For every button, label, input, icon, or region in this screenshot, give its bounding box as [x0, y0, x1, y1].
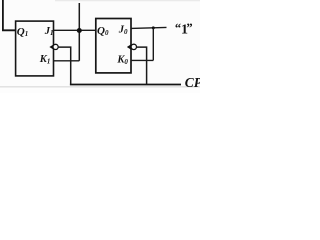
wire J0 input from "1": [131, 27, 167, 28]
paper background: [0, 0, 200, 88]
svg-text:CP: CP: [185, 75, 200, 90]
wire K1 input: [54, 60, 80, 62]
clock triangle FF0: [127, 44, 131, 50]
flip-flop FF1 box: [16, 21, 54, 76]
clock triangle FF1 (dynamic input): [49, 44, 53, 50]
wire Q1 output to top-left: [3, 0, 16, 30]
node junction dot on J1 line: [77, 28, 82, 33]
clock bubble FF0: [131, 44, 136, 49]
wire FF0 clock to CP rail: [136, 47, 146, 84]
node dot J0/K0 tie: [152, 26, 155, 29]
wire vertical from top through J1 node down to K1: [78, 3, 80, 61]
faint bottom divider line: [0, 86, 200, 88]
wire CP rail: [70, 84, 181, 86]
svg-text:”: ”: [186, 21, 192, 35]
wire K0 tie vertical: [152, 28, 154, 61]
faint top border line: [55, 0, 200, 2]
wire FF1 clock to CP rail: [58, 47, 70, 84]
wire J1 input line (FF1 right edge to FF0 left edge): [54, 29, 96, 31]
wire K0 input: [131, 59, 153, 61]
flip-flop FF0 box: [96, 19, 131, 73]
clock bubble FF1: [53, 44, 58, 49]
